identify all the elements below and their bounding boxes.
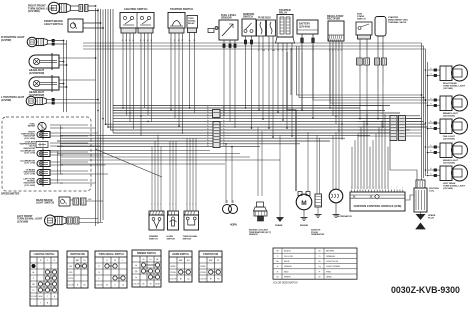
svg-text:TL: TL	[53, 260, 55, 262]
svg-text:HORN SWITCH: HORN SWITCH	[172, 254, 189, 256]
svg-text:L: L	[122, 260, 123, 262]
svg-text:BuW: BuW	[155, 284, 159, 286]
svg-text:Bu: Bu	[207, 126, 209, 128]
svg-text:Gr: Gr	[318, 276, 321, 279]
svg-text:Bu: Bu	[207, 109, 209, 111]
svg-text:FRAME: FRAME	[275, 224, 283, 227]
svg-text:Bu: Bu	[207, 137, 209, 139]
svg-text:W: W	[194, 40, 196, 42]
svg-text:2: 2	[402, 187, 403, 189]
svg-text:RED: RED	[284, 271, 289, 273]
svg-text:RW: RW	[272, 50, 275, 52]
svg-text:Lg: Lg	[187, 279, 189, 281]
svg-text:BLACK: BLACK	[284, 250, 291, 253]
svg-text:SWITCH: SWITCH	[149, 238, 158, 240]
svg-text:Lo: Lo	[135, 277, 137, 279]
svg-text:(12V16W): (12V16W)	[443, 188, 453, 190]
svg-text:1: 1	[192, 204, 193, 206]
svg-text:2: 2	[351, 187, 352, 189]
svg-text:Bu: Bu	[223, 112, 225, 114]
svg-text:(12V 3.4W): (12V 3.4W)	[24, 137, 35, 140]
svg-text:DIMMER SWITCH: DIMMER SWITCH	[137, 253, 156, 255]
svg-text:Bu: Bu	[207, 145, 209, 147]
svg-text:PLUG: PLUG	[428, 217, 434, 219]
svg-text:1: 1	[195, 204, 196, 206]
svg-text:Bu: Bu	[223, 137, 225, 139]
svg-text:(12V5W): (12V5W)	[1, 38, 11, 42]
svg-text:COLOR DESIGNATION: COLOR DESIGNATION	[273, 282, 298, 285]
svg-text:HL: HL	[156, 259, 158, 261]
svg-text:FREE: FREE	[200, 266, 206, 268]
svg-text:Bu: Bu	[207, 140, 209, 142]
svg-text:2: 2	[374, 187, 375, 189]
svg-text:IGNITION CONTROL MODULE (ICM): IGNITION CONTROL MODULE (ICM)	[354, 204, 402, 208]
svg-text:Bu: Bu	[207, 129, 209, 131]
svg-text:ENGINE: ENGINE	[300, 225, 309, 227]
svg-text:LIGHT BLUE: LIGHT BLUE	[326, 261, 339, 263]
svg-text:PUSH: PUSH	[170, 272, 176, 274]
svg-text:1: 1	[151, 204, 152, 206]
svg-text:(12V-6Ah): (12V-6Ah)	[299, 26, 310, 29]
svg-text:WHITE: WHITE	[284, 277, 291, 279]
svg-text:GENERATOR: GENERATOR	[311, 233, 325, 236]
svg-text:Bu: Bu	[207, 107, 209, 109]
svg-text:PINK: PINK	[326, 271, 331, 273]
svg-text:HORN: HORN	[230, 225, 237, 227]
svg-text:SWITCH: SWITCH	[243, 16, 253, 19]
svg-text:1: 1	[157, 204, 158, 206]
svg-text:W: W	[277, 277, 279, 279]
svg-text:SWITCH: SWITCH	[167, 238, 176, 240]
svg-text:(12V 1.7W): (12V 1.7W)	[24, 174, 35, 176]
svg-text:IGNITION SW: IGNITION SW	[70, 254, 85, 256]
svg-text:Bu: Bu	[223, 142, 225, 144]
svg-text:RECTIFIER: RECTIFIER	[327, 18, 340, 21]
svg-text:(12V16W): (12V16W)	[443, 88, 453, 90]
svg-text:0030Z-KVB-9300: 0030Z-KVB-9300	[391, 285, 460, 295]
svg-text:LIGHT SWITCH: LIGHT SWITCH	[44, 22, 63, 26]
svg-text:Bu: Bu	[207, 117, 209, 119]
svg-text:THERMAL VALVE: THERMAL VALVE	[388, 21, 407, 24]
svg-text:ORANGE: ORANGE	[326, 255, 336, 258]
svg-text:Bu: Bu	[223, 140, 225, 142]
svg-text:(12V60/55W): (12V60/55W)	[29, 71, 44, 75]
svg-text:(12V21/5W): (12V21/5W)	[443, 138, 455, 140]
svg-text:W: W	[150, 284, 152, 286]
svg-text:Bu: Bu	[223, 123, 225, 125]
svg-text:LOCK: LOCK	[68, 278, 74, 280]
svg-text:1: 1	[186, 204, 187, 206]
svg-text:TL: TL	[32, 290, 34, 292]
svg-text:SENSOR: SENSOR	[249, 234, 258, 236]
svg-text:COLOR: COLOR	[30, 296, 37, 298]
svg-text:COLOR: COLOR	[96, 285, 103, 287]
svg-text:STARTER SWITCH: STARTER SWITCH	[170, 7, 193, 11]
svg-text:2: 2	[379, 187, 380, 189]
svg-text:Gr: Gr	[106, 284, 108, 287]
svg-text:FREE: FREE	[170, 266, 176, 268]
svg-text:1: 1	[189, 204, 190, 206]
svg-text:LIGHT GREEN: LIGHT GREEN	[326, 266, 341, 268]
svg-text:(12V5W): (12V5W)	[1, 98, 11, 102]
svg-text:SIGNAL: SIGNAL	[188, 20, 196, 23]
svg-text:(12V16W): (12V16W)	[17, 220, 28, 223]
svg-text:1: 1	[169, 204, 170, 206]
svg-text:Bu: Bu	[207, 132, 209, 134]
svg-text:Bu: Bu	[142, 284, 144, 286]
svg-text:SENSOR: SENSOR	[221, 17, 232, 20]
svg-text:RELAY: RELAY	[188, 22, 195, 25]
svg-text:LIGHT SWITCH: LIGHT SWITCH	[36, 202, 54, 205]
svg-text:SWITCH: SWITCH	[183, 238, 192, 240]
svg-text:1: 1	[160, 204, 161, 206]
svg-text:RW: RW	[262, 50, 265, 52]
svg-text:BuW: BuW	[38, 296, 42, 298]
svg-text:1: 1	[172, 204, 173, 206]
svg-text:1: 1	[175, 204, 176, 206]
svg-text:Lb: Lb	[122, 285, 124, 287]
svg-text:GW: GW	[88, 199, 92, 201]
svg-text:M: M	[301, 200, 306, 207]
svg-text:Bu: Bu	[223, 132, 225, 134]
svg-text:Bu: Bu	[207, 114, 209, 116]
svg-text:YELLOW: YELLOW	[284, 256, 293, 258]
svg-text:Bu: Bu	[207, 120, 209, 122]
svg-text:Bu: Bu	[223, 117, 225, 119]
svg-text:Bu: Bu	[207, 134, 209, 136]
svg-text:Bu: Bu	[223, 107, 225, 109]
svg-text:GREEN: GREEN	[284, 266, 292, 268]
svg-text:COLOR: COLOR	[170, 279, 177, 281]
svg-text:(12V21/5W): (12V21/5W)	[443, 115, 455, 117]
svg-text:LIGHTING SWITCH: LIGHTING SWITCH	[34, 254, 55, 256]
svg-text:(12V 1.7W): (12V 1.7W)	[24, 163, 35, 165]
svg-text:Bu: Bu	[223, 134, 225, 136]
svg-text:Bu: Bu	[223, 120, 225, 122]
svg-text:Bu: Bu	[223, 129, 225, 131]
svg-text:Br: Br	[318, 250, 320, 253]
svg-text:COIL: COIL	[429, 190, 435, 192]
svg-text:COLOR: COLOR	[67, 285, 74, 287]
svg-text:LIGHTING SWITCH: LIGHTING SWITCH	[124, 7, 147, 11]
svg-text:Bu: Bu	[223, 114, 225, 116]
svg-text:ALTERNATOR: ALTERNATOR	[337, 215, 352, 218]
svg-text:STARTER SW: STARTER SW	[203, 253, 219, 256]
svg-text:PUSH: PUSH	[200, 272, 206, 274]
svg-text:METER: METER	[28, 126, 36, 128]
svg-text:Bu: Bu	[223, 126, 225, 128]
svg-text:SPEEDOMETER: SPEEDOMETER	[1, 193, 20, 196]
svg-text:FUSE BOX: FUSE BOX	[258, 17, 271, 20]
svg-text:1: 1	[154, 204, 155, 206]
svg-text:L: L	[98, 278, 99, 280]
svg-text:COLOR: COLOR	[200, 279, 207, 281]
svg-text:Bu: Bu	[207, 142, 209, 144]
svg-text:W: W	[182, 40, 184, 42]
svg-text:HL: HL	[32, 272, 34, 274]
svg-text:(12V21/5W): (12V21/5W)	[443, 162, 455, 164]
svg-text:BROWN: BROWN	[326, 251, 334, 253]
svg-text:(12V 1.7W): (12V 1.7W)	[24, 153, 35, 155]
svg-text:SWITCH: SWITCH	[357, 18, 366, 20]
svg-text:Bu: Bu	[223, 145, 225, 147]
svg-text:Lo: Lo	[149, 259, 151, 261]
svg-text:TURN SIGNAL SWITCH: TURN SIGNAL SWITCH	[98, 253, 124, 256]
svg-text:Bu: Bu	[223, 109, 225, 111]
svg-text:(12V 3.4W): (12V 3.4W)	[24, 184, 35, 187]
svg-text:COLOR: COLOR	[133, 284, 140, 286]
svg-text:BLUE: BLUE	[284, 261, 290, 263]
svg-text:Bu: Bu	[207, 123, 209, 125]
svg-text:Bu: Bu	[207, 112, 209, 114]
svg-text:(N): (N)	[135, 271, 138, 273]
svg-text:GRAY: GRAY	[326, 276, 332, 279]
svg-text:(12V16W): (12V16W)	[28, 9, 40, 13]
svg-text:W: W	[114, 260, 116, 262]
